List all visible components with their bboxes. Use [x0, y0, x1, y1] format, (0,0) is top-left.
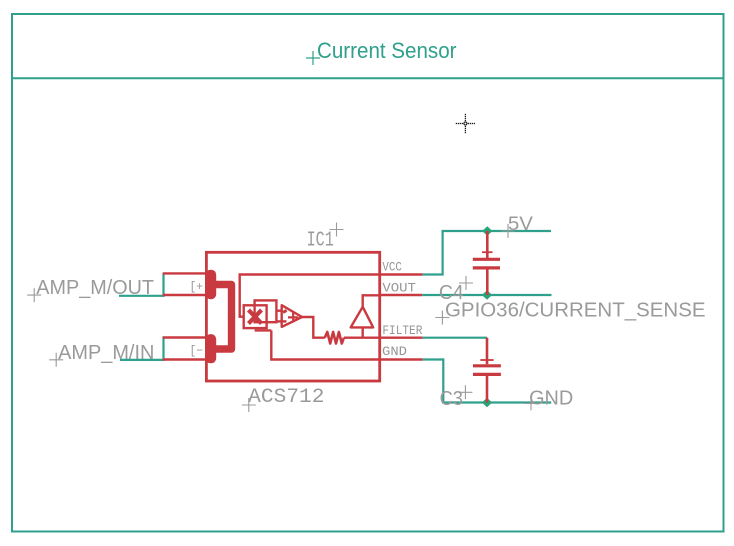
pin VOUT line	[380, 294, 423, 296]
svg-text:5V: 5V	[508, 214, 533, 235]
wire VOUT net	[422, 294, 551, 296]
svg-text:ACS712: ACS712	[248, 386, 324, 409]
hall element square	[244, 305, 267, 328]
op-amp minus mark	[283, 310, 287, 312]
pin IP- lower (pin 4)	[163, 358, 207, 360]
title origin cross	[306, 51, 320, 65]
capacitor C4 bottom plate	[473, 266, 500, 269]
internal VCC connection	[240, 275, 380, 317]
wire AMP_M/OUT horizontal	[119, 295, 164, 297]
thick current path	[212, 285, 232, 350]
pin IP+ upper (pin 1)	[163, 272, 207, 274]
cursor cross (dotted)	[456, 114, 475, 133]
net AMP_M/OUT origin cross	[27, 288, 41, 302]
svg-text:C3: C3	[440, 388, 463, 410]
buffer triangle	[351, 307, 374, 328]
svg-text:[−: [−	[190, 344, 204, 358]
capacitor C3 top plate	[473, 364, 501, 367]
capacitor C4 top lead	[486, 231, 489, 258]
buffer vertical below	[362, 327, 364, 337]
svg-text:Current Sensor: Current Sensor	[317, 38, 457, 63]
hall element bottom edge line	[255, 329, 272, 331]
capacitor C4 bottom lead	[486, 270, 489, 296]
svg-text:GND: GND	[529, 388, 573, 410]
op-amp triangle	[282, 305, 302, 327]
C4 origin cross	[459, 276, 473, 290]
op-amp upper input line	[276, 310, 281, 312]
op-amp IC1 body outline	[206, 252, 379, 381]
svg-text:IC1: IC1	[307, 229, 334, 252]
wire GND pin to GND rail	[423, 360, 552, 403]
C3 origin cross	[458, 385, 472, 399]
net 5V origin cross	[501, 224, 515, 238]
IC1 origin cross	[330, 223, 344, 237]
pin GND line	[380, 358, 423, 360]
net AMP_M/IN origin cross	[49, 353, 63, 367]
op-amp output wire to resistor	[302, 317, 325, 338]
junction VOUT / C4	[482, 290, 492, 300]
wire VCC to 5V rail	[423, 231, 551, 275]
op-amp lower input line	[276, 320, 287, 322]
resistor zigzag	[325, 332, 344, 344]
svg-text:[+: [+	[190, 280, 204, 294]
capacitor C3 plus mark	[480, 359, 493, 361]
svg-text:VOUT: VOUT	[382, 281, 416, 296]
svg-text:FILTER: FILTER	[382, 323, 422, 338]
hall element X mark	[249, 310, 262, 324]
wire AMP_M/IN horizontal	[120, 359, 164, 361]
svg-text:VCC: VCC	[382, 260, 402, 275]
wire AMP_M/OUT vertical to IP+ pins	[162, 273, 164, 297]
hall element back square	[255, 300, 277, 322]
junction GND / C3	[482, 398, 492, 408]
ACS712 origin cross	[242, 398, 256, 412]
capacitor C3 bottom plate	[473, 373, 501, 376]
svg-text:GPIO36/CURRENT_SENSE: GPIO36/CURRENT_SENSE	[445, 300, 706, 322]
IP+ terminal blob	[206, 270, 217, 300]
wire AMP_M/IN vertical to IP- pins	[162, 336, 164, 361]
GPIO36 origin cross	[435, 311, 449, 325]
op-amp plus mark	[288, 312, 298, 322]
pin VCC line	[380, 273, 423, 275]
IP- terminal blob	[206, 334, 217, 363]
wire FILTER net	[423, 337, 487, 339]
pin FILTER line	[380, 337, 423, 339]
capacitor C3 top lead	[486, 338, 489, 365]
internal GND connection	[271, 330, 379, 359]
pin IP+ lower (pin 2)	[163, 294, 207, 296]
capacitor C4 plus mark	[482, 251, 493, 253]
frame title separator	[12, 77, 724, 79]
junction 5V / C4	[482, 226, 492, 236]
wire resistor to FILTER pin	[344, 337, 380, 339]
svg-text:GND: GND	[382, 344, 407, 359]
capacitor C3 bottom lead	[486, 376, 489, 403]
pin IP- upper (pin 3)	[163, 336, 207, 338]
internal VOUT connection	[363, 295, 380, 307]
GND origin cross	[524, 396, 538, 410]
capacitor C4 top plate	[473, 258, 500, 261]
